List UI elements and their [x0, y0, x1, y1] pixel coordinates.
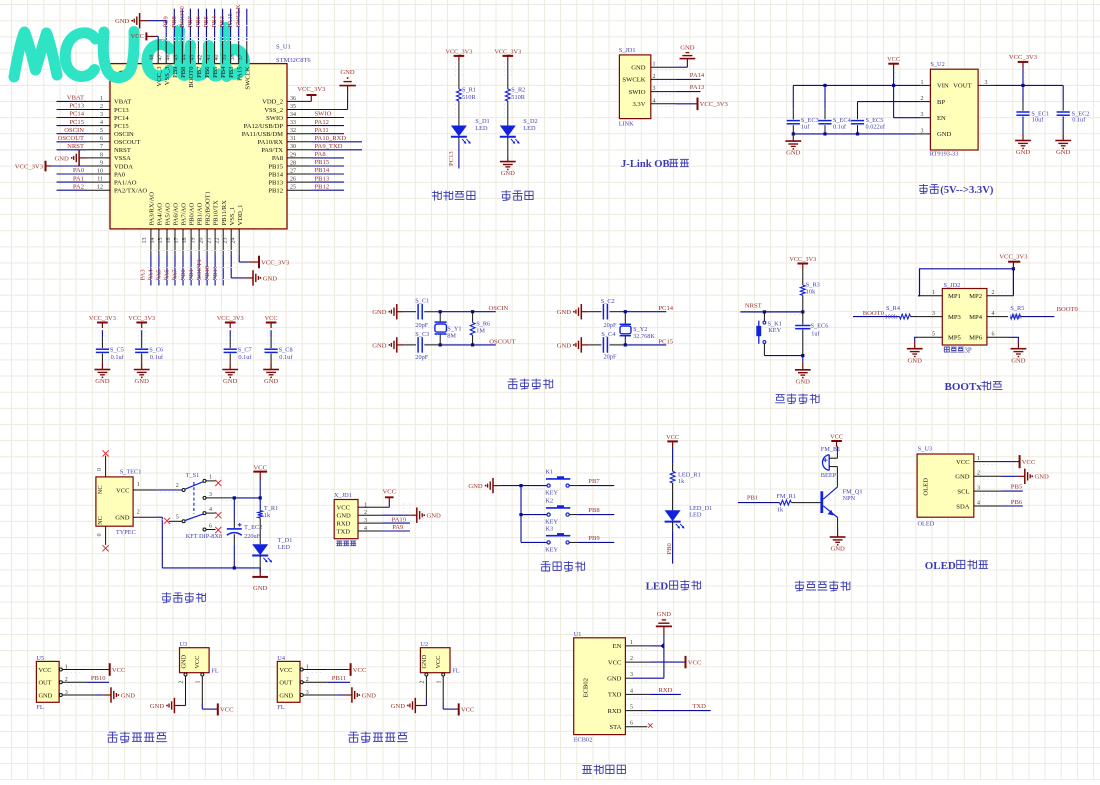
wire EN row — [894, 117, 921, 119]
U5 pin3 wire to ground — [62, 694, 95, 696]
U1 pin 18 PB0/AO — [190, 229, 192, 255]
svg-text:42: 42 — [198, 55, 204, 61]
svg-text:BOOTx: BOOTx — [945, 381, 983, 393]
svg-text:MP1: MP1 — [948, 293, 961, 300]
svg-text:S_C4: S_C4 — [601, 331, 616, 338]
resistor FM_R1 1k — [780, 500, 792, 505]
resistor S_R3 10k — [800, 285, 805, 295]
wire VCC to buzzer — [836, 447, 838, 459]
svg-text:GND: GND — [937, 131, 952, 138]
wire VCC to LED_R1 — [672, 447, 674, 463]
svg-text:SWCLK: SWCLK — [622, 77, 645, 84]
svg-text:VCC_3V3: VCC_3V3 — [999, 253, 1028, 260]
svg-text:0.1uf: 0.1uf — [833, 124, 847, 131]
svg-text:BOOT0: BOOT0 — [188, 66, 195, 88]
wire net PB3 — [230, 9, 232, 39]
wire net BOOT0 — [189, 9, 191, 39]
wire net PB14 — [311, 173, 344, 175]
svg-text:FM_B1: FM_B1 — [821, 446, 841, 453]
wire VOUT to VCC_3V3 — [993, 84, 1063, 86]
svg-text:S_C1: S_C1 — [415, 298, 429, 305]
svg-text:SWCLK: SWCLK — [235, 4, 242, 27]
U1 pin 43 PB7 — [197, 39, 199, 64]
svg-text:PC13: PC13 — [448, 151, 455, 166]
wire VCC to S_R1 — [458, 61, 460, 89]
svg-text:GND: GND — [223, 378, 238, 385]
wire net VBAT — [57, 100, 87, 102]
svg-text:PB0: PB0 — [180, 268, 187, 280]
svg-text:NC: NC — [97, 516, 104, 525]
wire S_C8 to ground — [270, 354, 272, 363]
svg-text:S_R2: S_R2 — [511, 87, 525, 94]
U1 pin 34 SWIO — [287, 117, 311, 119]
svg-text:PA9: PA9 — [392, 524, 404, 531]
svg-text:PB1/AO: PB1/AO — [197, 203, 204, 226]
capacitor T_EC2 220uF electrolytic — [233, 498, 235, 520]
wire net BOOT1 — [206, 254, 208, 285]
key K2 KEY — [521, 514, 547, 516]
U4 pin2 wire net PB11 — [303, 681, 327, 683]
U1 pin 17 PA7/AO — [182, 229, 184, 255]
power VCC above S_U2 — [893, 64, 895, 69]
svg-text:PB6: PB6 — [204, 66, 211, 78]
svg-text:1k: 1k — [264, 512, 271, 519]
U1 pin 48 VCC_3 — [157, 39, 159, 64]
ground at U1 pin 35 VSS_2 — [311, 109, 347, 111]
svg-text:VCC_3V3: VCC_3V3 — [789, 256, 816, 263]
S_JD2 pin 3 — [918, 316, 942, 318]
U5 pin1 wire to VCC — [62, 669, 86, 671]
ground at S_C3 — [397, 344, 404, 346]
svg-text:11: 11 — [97, 177, 103, 183]
U1 pin 44 BOOT0 — [189, 39, 191, 64]
svg-text:5: 5 — [176, 514, 179, 520]
svg-text:X_JD1: X_JD1 — [334, 492, 352, 499]
svg-text:10: 10 — [97, 168, 103, 174]
ground below S_C5 — [101, 362, 103, 369]
svg-text:SWIO: SWIO — [315, 111, 332, 118]
svg-text:PB7: PB7 — [196, 66, 203, 78]
wire net PB6 — [206, 9, 208, 39]
wire net SWCLK — [246, 9, 248, 39]
svg-text:VCC_3V3: VCC_3V3 — [89, 315, 116, 322]
svg-text:FM_R1: FM_R1 — [776, 493, 796, 500]
svg-text:GND: GND — [468, 483, 483, 490]
wire S_C4 to PC15 node — [610, 344, 626, 346]
svg-text:PC13: PC13 — [69, 103, 84, 110]
svg-text:NC: NC — [97, 485, 104, 494]
svg-text:GND: GND — [372, 342, 387, 349]
svg-text:22: 22 — [214, 238, 220, 244]
capacitor S_EC5 0.022uf — [857, 102, 859, 112]
svg-text:PB6: PB6 — [1011, 499, 1023, 506]
svg-text:MP6: MP6 — [969, 335, 983, 342]
svg-text:PB13: PB13 — [268, 179, 283, 186]
svg-text:S_R1: S_R1 — [462, 87, 476, 94]
svg-text:VSS_2: VSS_2 — [264, 107, 283, 114]
svg-text:0.1uf: 0.1uf — [150, 354, 164, 361]
ground at U1 pin 23 VSS_1 — [230, 254, 232, 278]
ground bar below T_D1 — [252, 576, 268, 578]
svg-text:SWIO: SWIO — [629, 89, 646, 96]
svg-text:GND: GND — [263, 275, 278, 282]
svg-text:35: 35 — [290, 104, 296, 110]
svg-text:PC14: PC14 — [658, 305, 673, 312]
svg-text:VCC_3V3: VCC_3V3 — [494, 48, 521, 55]
capacitor S_C2 20pF — [602, 304, 604, 320]
svg-text:4: 4 — [209, 507, 212, 513]
svg-text:PA12/USB/DP: PA12/USB/DP — [244, 123, 284, 130]
svg-text:RXD: RXD — [659, 687, 673, 694]
svg-text:RXD: RXD — [607, 708, 621, 715]
wire net PB12 — [311, 189, 344, 191]
svg-text:VCC: VCC — [887, 56, 900, 63]
svg-text:VCC: VCC — [956, 459, 970, 466]
wire S_C1 to OSCIN node — [424, 311, 440, 313]
svg-text:20: 20 — [198, 238, 204, 244]
power VCC right of ECB02 — [683, 661, 685, 663]
resistor S_R4 100k — [900, 314, 911, 319]
capacitor S_EC4 0.1uf — [824, 85, 826, 108]
svg-text:PC14: PC14 — [114, 115, 129, 122]
wire pin4 to VCC_3V3 — [675, 103, 695, 105]
title IR sensor 2 — [349, 732, 359, 742]
svg-text:S_C5: S_C5 — [110, 347, 124, 354]
wire pin2 to ground — [1001, 475, 1017, 477]
U1 pin 28 PB15 — [287, 165, 311, 167]
svg-text:VSSA: VSSA — [114, 155, 131, 162]
svg-text:PB2/BOOT1: PB2/BOOT1 — [205, 191, 212, 225]
svg-text:S_EC6: S_EC6 — [811, 323, 829, 330]
svg-text:GND: GND — [1056, 149, 1071, 156]
svg-text:GND: GND — [1035, 474, 1050, 481]
capacitor S_C1 20pF — [417, 304, 419, 320]
svg-text:2: 2 — [420, 681, 426, 684]
capacitor S_C3 20pF — [417, 337, 419, 353]
svg-text:1uf: 1uf — [811, 330, 820, 337]
ground below S_JD2 pin6 — [1017, 342, 1019, 349]
svg-text:16: 16 — [166, 238, 172, 244]
svg-text:PC14: PC14 — [69, 111, 84, 118]
svg-text:1: 1 — [100, 96, 103, 102]
svg-text:28: 28 — [290, 160, 296, 166]
svg-text:21: 21 — [206, 238, 212, 244]
svg-text:PA5: PA5 — [156, 269, 163, 281]
svg-text:PA8: PA8 — [272, 155, 284, 162]
svg-text:PB1: PB1 — [188, 269, 195, 280]
svg-text:4: 4 — [100, 120, 103, 126]
svg-text:GND: GND — [121, 692, 136, 699]
U4 pin1 wire to VCC — [303, 669, 327, 671]
wire net PB8 — [181, 9, 183, 39]
svg-text:PA6/AO: PA6/AO — [173, 203, 180, 226]
S_JD2 pin 4 — [987, 316, 1008, 318]
svg-text:13: 13 — [142, 238, 148, 244]
resistor T_R1 1k — [258, 511, 263, 518]
key bus vertical — [520, 486, 522, 543]
capacitor S_C5 0.1uf — [96, 348, 109, 350]
svg-text:GND: GND — [427, 513, 442, 520]
svg-text:VCC_3V3: VCC_3V3 — [297, 86, 326, 93]
wire net PA5 — [166, 254, 168, 285]
svg-text:PA2/TX/AO: PA2/TX/AO — [114, 188, 147, 195]
svg-text:PB14: PB14 — [268, 171, 283, 178]
U2 pin VCC wire — [442, 676, 444, 703]
crystal S_Y2 32.768K — [624, 312, 626, 324]
svg-text:0.022uf: 0.022uf — [866, 124, 886, 131]
svg-text:VDD_1: VDD_1 — [237, 205, 244, 226]
ground below reset — [802, 356, 804, 362]
svg-text:VCC: VCC — [220, 707, 234, 714]
wire VCC to S_R2 — [507, 61, 509, 89]
resistor S_R6 1M — [472, 312, 474, 323]
power VCC_3V3 above S_JD2 — [1012, 262, 1014, 269]
svg-text:VCC: VCC — [461, 707, 475, 714]
wire pin1 to switch — [156, 489, 182, 491]
capacitor S_EC6 1uf — [802, 312, 804, 325]
svg-text:PA1/AO: PA1/AO — [114, 179, 137, 186]
resistor S_R1 510R — [457, 89, 462, 101]
wire VCC_3V3 to S_C6 — [141, 330, 143, 338]
svg-text:VCC_3V3: VCC_3V3 — [700, 101, 729, 108]
power VCC_3V3 above S_R3 — [802, 264, 804, 270]
LED S_D2 — [500, 126, 516, 137]
wire S_D1 to PC13 — [458, 137, 460, 142]
svg-text:8M: 8M — [447, 333, 456, 340]
U1 pin 29 PA8 — [287, 157, 311, 159]
wire gnd to key bus — [500, 485, 521, 487]
ECB02 pin6 STA stub — [625, 726, 647, 728]
net NRST wire — [740, 311, 802, 313]
wire VCC to VIN rail — [893, 69, 895, 118]
svg-text:SWIO: SWIO — [266, 115, 283, 122]
wire net PC15 — [57, 125, 87, 127]
capacitor S_EC2 0.1uf — [1062, 85, 1064, 102]
title reset circuit — [776, 395, 785, 403]
svg-text:1: 1 — [932, 290, 935, 296]
key K3 KEY — [521, 541, 547, 543]
svg-text:VCC: VCC — [337, 505, 351, 512]
svg-text:VDDA: VDDA — [114, 163, 133, 170]
svg-text:20pF: 20pF — [415, 322, 428, 329]
wire VIN row — [793, 84, 920, 86]
svg-text:EN: EN — [613, 643, 622, 650]
wire net PA3 — [150, 254, 152, 285]
svg-text:PA3: PA3 — [140, 269, 147, 281]
X_JD1 pin1 wire to VCC — [358, 506, 389, 508]
ground at S_C4 — [582, 344, 589, 346]
U1 pin 35 VSS_2 — [287, 109, 311, 111]
svg-text:VCC_3V3: VCC_3V3 — [128, 315, 155, 322]
svg-text:PB5: PB5 — [1011, 484, 1023, 491]
svg-text:34: 34 — [290, 112, 296, 118]
wire S_K1 to gnd rail — [763, 343, 765, 355]
selection dots bottom — [147, 250, 238, 252]
power VCC_3V3 at U1 pin 24 VDD_1 — [238, 254, 240, 262]
junction — [856, 132, 859, 135]
svg-text:GND: GND — [95, 378, 110, 385]
T_S1 pin 4 stub — [206, 512, 216, 514]
svg-text:TXD: TXD — [337, 528, 351, 535]
svg-text:MP2: MP2 — [969, 293, 982, 300]
svg-text:44: 44 — [182, 55, 188, 61]
title IR sensor 1 — [108, 732, 118, 742]
U1 pin 19 PB1/AO — [198, 229, 200, 255]
svg-text:14: 14 — [150, 238, 156, 244]
wire net PA14 — [675, 78, 700, 80]
svg-text:40: 40 — [214, 55, 220, 61]
wire S_D2 to ground — [507, 137, 509, 157]
key S_K1 KEY — [763, 312, 765, 321]
wire net PB6 — [1001, 505, 1023, 507]
U1 pin 16 PA6/AO — [174, 229, 176, 255]
svg-text:30: 30 — [290, 144, 296, 150]
ground below S_EC3 — [792, 134, 794, 141]
svg-text:7: 7 — [100, 144, 103, 150]
U1 pin 46 PB9 — [173, 39, 175, 64]
buzzer FM_B1 BEEP — [822, 455, 829, 471]
svg-text:6: 6 — [630, 721, 633, 727]
power VCC_3V3 at S_JD1 pin4 — [695, 103, 698, 105]
svg-text:3.3V: 3.3V — [632, 101, 645, 108]
gnd vertical — [663, 635, 665, 679]
svg-text:S_TEC1: S_TEC1 — [120, 469, 142, 476]
svg-text:VCC: VCC — [1022, 459, 1036, 466]
svg-text:PC15: PC15 — [69, 119, 84, 126]
svg-text:BP: BP — [937, 99, 945, 106]
svg-text:100k: 100k — [885, 313, 898, 320]
svg-text:FL: FL — [36, 704, 44, 711]
U1 pin 1 VBAT — [87, 100, 111, 102]
svg-text:43: 43 — [190, 55, 196, 61]
svg-text:1: 1 — [630, 640, 633, 646]
wire S_R3 to NRST node — [802, 295, 804, 312]
wire resistor to LED — [507, 101, 509, 126]
svg-text:6: 6 — [209, 523, 212, 529]
U1 pin 8 VSSA — [87, 157, 111, 159]
resistor S_R2 510R — [505, 89, 510, 101]
svg-text:NPN: NPN — [843, 495, 856, 502]
wire net PA11 — [311, 133, 344, 135]
node PC14 wire — [625, 311, 666, 313]
svg-text:PA9_TXD: PA9_TXD — [315, 143, 343, 150]
svg-text:PA13: PA13 — [690, 84, 705, 91]
svg-text:47: 47 — [157, 55, 163, 61]
svg-text:VCC: VCC — [383, 489, 397, 496]
S_JD2 pin 2 — [987, 295, 1014, 297]
svg-text:GND: GND — [135, 378, 150, 385]
S_TEC1 bottom pin 0 — [105, 526, 107, 545]
svg-text:1k: 1k — [777, 506, 784, 513]
blue arc marker at U1 top-left — [118, 71, 127, 76]
ground above ECB02 — [663, 626, 665, 634]
svg-text:VCC: VCC — [688, 660, 702, 667]
ground below S_EC1 — [1022, 133, 1024, 140]
wire net PB11 — [222, 254, 224, 285]
power VCC_3V3 above S_R2 — [507, 56, 509, 62]
svg-text:RXD: RXD — [337, 520, 351, 527]
svg-text:2: 2 — [179, 681, 185, 684]
svg-text:LINK: LINK — [619, 120, 634, 127]
wire K3 to net PB9 — [569, 541, 578, 543]
power VCC above LED_R1 — [672, 441, 674, 447]
svg-text:BOOT0: BOOT0 — [863, 310, 885, 317]
wire net PB15 — [311, 165, 344, 167]
U1 pin 4 PC15 — [87, 125, 111, 127]
U5 pin2 wire net PB10 — [62, 681, 86, 683]
svg-text:41: 41 — [206, 55, 212, 61]
svg-text:VBAT: VBAT — [67, 95, 84, 102]
svg-text:PA3/RX/AO: PA3/RX/AO — [149, 192, 156, 226]
ground below S_D2 — [507, 157, 509, 161]
wire net PA4 — [158, 254, 160, 285]
mcu U1 body STM32C8T6 — [110, 64, 287, 229]
svg-text:38: 38 — [230, 55, 236, 61]
svg-text:S_Y1: S_Y1 — [447, 326, 461, 333]
svg-text:PB10: PB10 — [91, 675, 106, 682]
svg-text:4: 4 — [630, 688, 633, 694]
svg-text:PA4: PA4 — [148, 269, 155, 281]
svg-text:VCC_3V3: VCC_3V3 — [217, 315, 244, 322]
svg-text:GND: GND — [362, 692, 377, 699]
svg-text:20pF: 20pF — [604, 322, 617, 329]
svg-text:VCC: VCC — [353, 667, 367, 674]
svg-text:8: 8 — [100, 152, 103, 158]
svg-text:46: 46 — [166, 55, 172, 61]
wire net PA15 — [238, 9, 240, 39]
T_S1 pin 6 stub — [206, 529, 216, 531]
T_S1 pin 3 wire to VCC rail — [206, 497, 232, 499]
svg-text:OSCIN: OSCIN — [64, 127, 84, 134]
svg-text:PB10/TX: PB10/TX — [213, 200, 220, 226]
wire VCC to S_R3 — [802, 269, 804, 285]
svg-text:GND: GND — [557, 309, 572, 316]
svg-text:EN: EN — [937, 115, 946, 122]
svg-text:U2: U2 — [420, 641, 428, 648]
svg-text:VSS_1: VSS_1 — [229, 207, 236, 226]
LED T_D1 — [252, 544, 268, 555]
wire S_C7 to ground — [229, 354, 231, 363]
title bluetooth module — [583, 766, 592, 774]
ground at U1 pin 47 VSS_3 — [140, 20, 147, 22]
svg-text:VCC_3V3: VCC_3V3 — [1009, 54, 1038, 61]
U1 pin 38 PA15 — [238, 39, 240, 64]
svg-text:PA11/USB/DM: PA11/USB/DM — [242, 131, 283, 138]
U1 pin 9 VDDA — [87, 165, 111, 167]
svg-text:23: 23 — [222, 238, 228, 244]
crystal S_Y1 8M — [439, 312, 441, 322]
svg-text:LED: LED — [523, 125, 536, 132]
node PC15 wire — [625, 344, 666, 346]
svg-text:VCC: VCC — [435, 656, 442, 669]
svg-text:VCC: VCC — [112, 667, 126, 674]
svg-text:BOOT1: BOOT1 — [196, 259, 203, 280]
svg-text:GND: GND — [680, 44, 695, 51]
svg-text:PB7: PB7 — [588, 478, 600, 485]
svg-text:VCC_3V3: VCC_3V3 — [15, 163, 44, 170]
svg-text:GND: GND — [786, 150, 801, 157]
svg-text:FL: FL — [452, 667, 460, 674]
U4 pin3 wire to ground — [303, 694, 336, 696]
resistor S_R5 100k — [1010, 314, 1020, 319]
svg-text:2: 2 — [176, 483, 179, 489]
svg-text:PB15: PB15 — [315, 159, 330, 166]
svg-text:PA9/TX: PA9/TX — [261, 147, 283, 154]
selection dots top — [162, 25, 250, 27]
svg-text:26: 26 — [290, 177, 296, 183]
svg-text:VIN: VIN — [937, 83, 949, 90]
ground below S_EC2 — [1062, 133, 1064, 140]
